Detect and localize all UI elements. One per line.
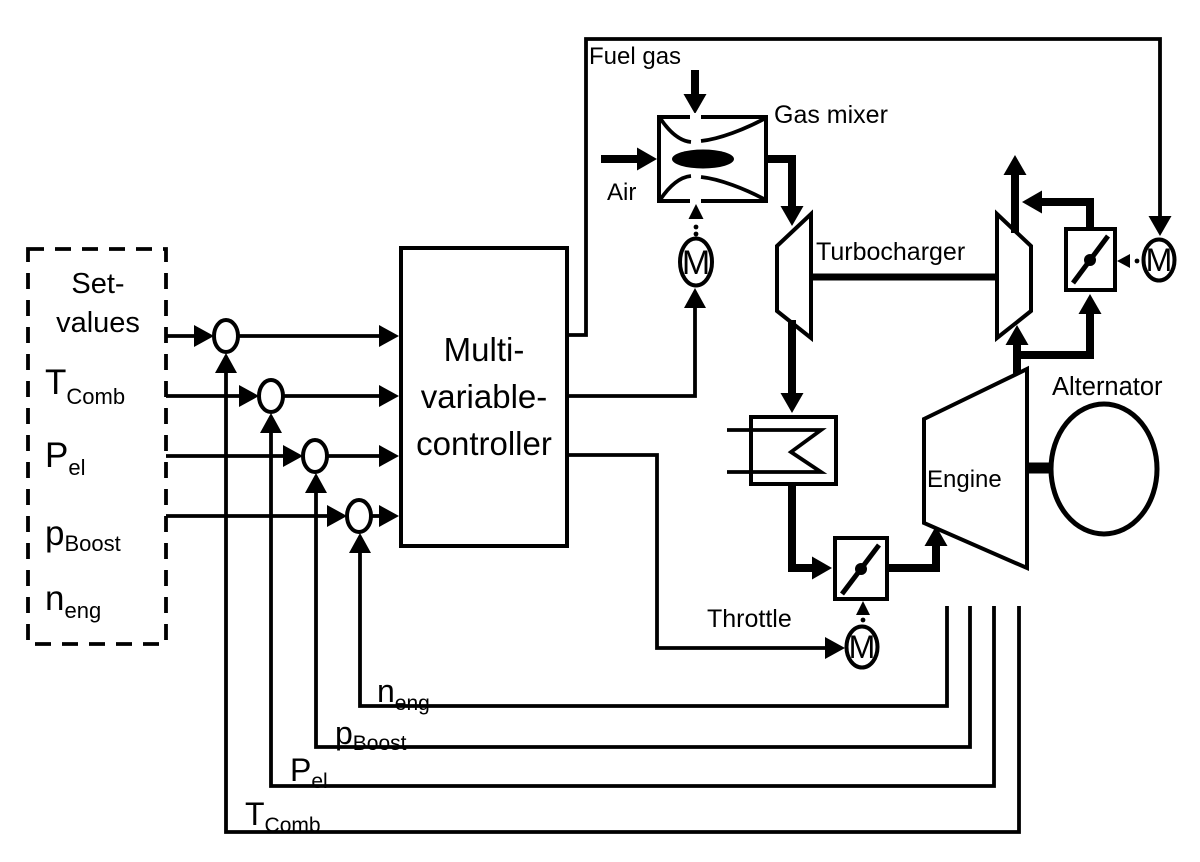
svg-text:variable-: variable- [421,378,548,415]
svg-text:Engine: Engine [927,466,1002,493]
svg-text:Gas mixer: Gas mixer [774,101,888,129]
svg-text:controller: controller [416,425,552,462]
svg-text:M: M [849,629,876,665]
svg-text:M: M [682,244,710,282]
svg-text:Multi-: Multi- [444,331,525,368]
svg-text:Fuel gas: Fuel gas [589,43,681,70]
svg-text:Alternator: Alternator [1052,373,1163,401]
svg-text:Turbocharger: Turbocharger [816,238,965,266]
svg-text:Set-: Set- [71,268,124,300]
svg-text:values: values [56,307,140,339]
svg-text:Throttle: Throttle [707,605,792,633]
svg-text:M: M [1146,242,1173,278]
svg-text:Air: Air [607,179,636,206]
